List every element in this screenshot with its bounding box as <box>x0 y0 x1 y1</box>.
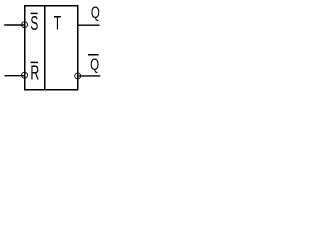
inversion bubble on R input <box>22 72 28 78</box>
overline of S <box>31 12 38 14</box>
svg-text:R: R <box>30 61 39 84</box>
wire: R input <box>5 75 25 77</box>
inversion bubble on Qbar output <box>75 73 81 79</box>
wire: Q output <box>78 24 100 26</box>
flip-flop body U1 <box>25 6 78 90</box>
inversion bubble on S input <box>22 22 28 28</box>
svg-text:S: S <box>30 12 38 35</box>
svg-text:Q: Q <box>91 4 100 23</box>
internal divider <box>44 5 46 90</box>
overline of Qbar <box>88 54 99 56</box>
overline of R <box>31 61 38 63</box>
wire: S input <box>4 24 24 26</box>
wire: Qbar output <box>78 75 101 77</box>
svg-text:Q: Q <box>90 56 99 75</box>
svg-text:T: T <box>54 13 61 35</box>
